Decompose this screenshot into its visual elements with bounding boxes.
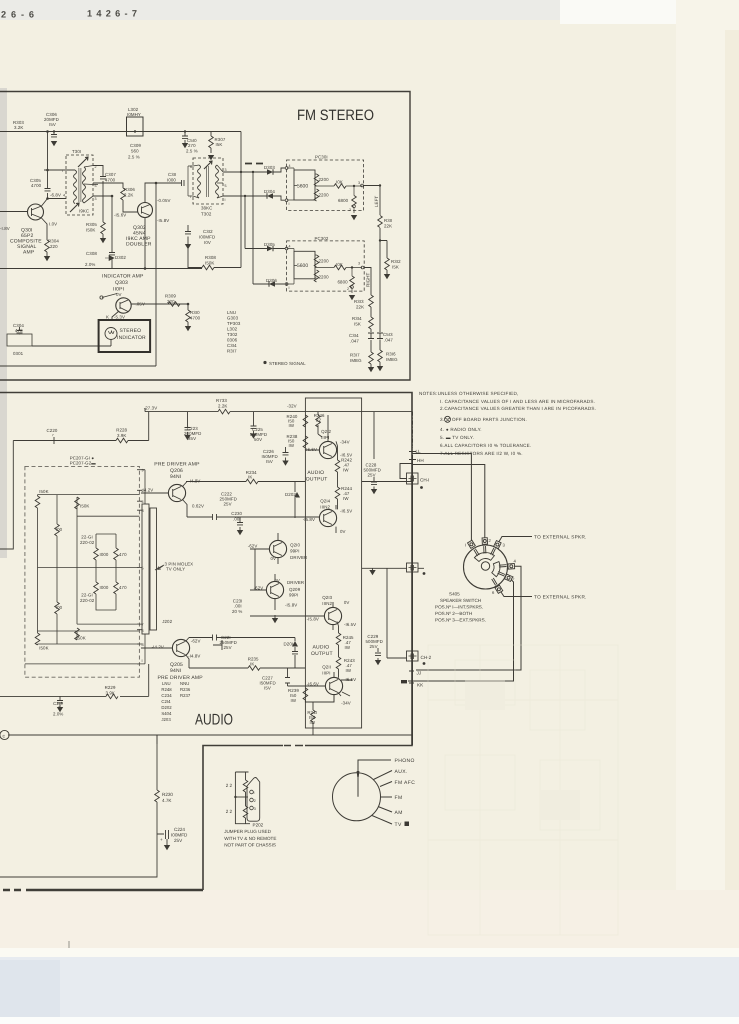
svg-text:7: 7 <box>142 623 144 627</box>
svg-text:D306: D306 <box>266 278 277 283</box>
svg-text:R3I3: R3I3 <box>354 299 364 304</box>
svg-text:I9KC: I9KC <box>79 209 89 214</box>
svg-text:J202: J202 <box>162 619 172 624</box>
svg-text:D304: D304 <box>264 189 275 194</box>
svg-text:2.2K: 2.2K <box>218 404 227 409</box>
svg-text:5: 5 <box>225 184 227 188</box>
svg-text:C308: C308 <box>86 251 97 256</box>
svg-text:4: 4 <box>63 194 65 198</box>
svg-text:2 2: 2 2 <box>226 783 233 788</box>
svg-text:-5.3V: -5.3V <box>114 315 125 320</box>
svg-text:-I6.5V: -I6.5V <box>340 509 352 514</box>
svg-text:I00MFD: I00MFD <box>199 235 215 240</box>
svg-text:C309: C309 <box>130 143 141 148</box>
svg-text:-I4.2V: -I4.2V <box>152 645 164 650</box>
svg-text:D303: D303 <box>264 165 275 170</box>
svg-text:-I6.6V: -I6.6V <box>305 447 317 452</box>
svg-text:AMP: AMP <box>23 250 35 256</box>
svg-text:6: 6 <box>142 629 144 633</box>
svg-text:5: 5 <box>142 567 144 571</box>
svg-text:6.ALL CAPACITORS I0 % TOLERAN: 6.ALL CAPACITORS I0 % TOLERANCE. <box>440 443 531 448</box>
svg-text:IK: IK <box>248 475 252 480</box>
svg-text:22K: 22K <box>356 305 364 310</box>
svg-text:LL: LL <box>416 449 422 454</box>
svg-text:22K: 22K <box>384 224 392 229</box>
svg-text:AUX.: AUX. <box>395 769 408 775</box>
svg-text:POS.Nº 2—BOTH: POS.Nº 2—BOTH <box>435 611 472 616</box>
svg-text:JUMPER PLUG USED: JUMPER PLUG USED <box>224 829 271 834</box>
svg-text:IW: IW <box>289 443 295 448</box>
svg-text:-.05V: -.05V <box>134 302 145 307</box>
svg-text:3: 3 <box>225 168 227 172</box>
svg-text:2.2K: 2.2K <box>124 193 133 198</box>
svg-text:II0PI: II0PI <box>113 287 124 293</box>
svg-text:6800: 6800 <box>338 198 349 203</box>
svg-text:220-02: 220-02 <box>80 540 95 545</box>
svg-text:C3I2: C3I2 <box>203 229 213 234</box>
svg-text:IMEG: IMEG <box>386 357 398 362</box>
svg-text:220: 220 <box>167 299 175 304</box>
svg-text:C3I4: C3I4 <box>227 343 237 348</box>
svg-text:I: I <box>190 195 191 199</box>
svg-text:C3II: C3II <box>168 172 176 177</box>
svg-text:R3II: R3II <box>384 218 392 223</box>
svg-text:-I4.8V: -I4.8V <box>188 479 200 484</box>
svg-text:R237: R237 <box>180 693 191 698</box>
svg-text:I: I <box>254 791 255 795</box>
svg-text:-I6.5V: -I6.5V <box>344 677 356 682</box>
svg-text:2.5 %: 2.5 % <box>128 155 140 160</box>
svg-text:T30I: T30I <box>72 149 81 154</box>
svg-text:DOUBLER: DOUBLER <box>126 242 152 248</box>
svg-text:.047: .047 <box>384 338 393 343</box>
svg-text:R248: R248 <box>161 687 172 692</box>
svg-text:Q2I4: Q2I4 <box>320 499 330 504</box>
svg-text:470: 470 <box>119 552 127 557</box>
svg-text:I5V: I5V <box>266 459 273 464</box>
svg-text:3: 3 <box>358 262 360 266</box>
svg-text:3: 3 <box>142 509 144 513</box>
svg-text:3: 3 <box>254 807 256 811</box>
svg-text:I: I <box>289 286 290 290</box>
svg-text:OUTPUT: OUTPUT <box>311 651 333 657</box>
svg-text:Q2I2: Q2I2 <box>321 429 331 434</box>
svg-text:HH: HH <box>417 458 424 463</box>
svg-text:FM STEREO: FM STEREO <box>297 107 374 124</box>
svg-text:I: I <box>289 202 290 206</box>
svg-text:0V: 0V <box>116 292 122 297</box>
svg-text:4. ● RADIO ONLY.: 4. ● RADIO ONLY. <box>440 427 482 432</box>
svg-text:C3I4: C3I4 <box>349 333 359 338</box>
svg-text:NOT PART OF CHASSIS: NOT PART OF CHASSIS <box>224 843 276 848</box>
svg-text:2.5 %: 2.5 % <box>186 149 198 154</box>
svg-text:20 %: 20 % <box>232 609 242 614</box>
svg-text:TO EXTERNAL SPKR.: TO EXTERNAL SPKR. <box>534 595 587 600</box>
svg-text:I50K: I50K <box>39 489 48 494</box>
svg-text:R3I4: R3I4 <box>352 316 362 321</box>
svg-text:270: 270 <box>188 143 196 148</box>
svg-text:C220: C220 <box>47 428 58 433</box>
svg-text:I0V: I0V <box>204 240 211 245</box>
svg-text:POS.Nº I—INT.SPKRS.: POS.Nº I—INT.SPKRS. <box>435 605 483 610</box>
svg-text:-32V: -32V <box>287 404 297 409</box>
svg-text:R229: R229 <box>105 685 116 690</box>
svg-text:C230: C230 <box>231 511 242 516</box>
svg-text:-I5.8V: -I5.8V <box>285 603 297 608</box>
svg-text:4: 4 <box>289 164 291 168</box>
svg-text:-62V: -62V <box>254 586 264 591</box>
svg-text:DRIVER: DRIVER <box>287 580 304 585</box>
svg-text:I5K: I5K <box>354 322 361 327</box>
svg-text:560: 560 <box>131 149 139 154</box>
svg-text:⌜: ⌜ <box>58 706 60 711</box>
svg-text:KK: KK <box>417 683 424 688</box>
svg-text:-34V: -34V <box>341 701 351 706</box>
svg-text:-62V: -62V <box>191 639 201 644</box>
svg-text:94NI: 94NI <box>170 474 181 480</box>
svg-text:C2I4: C2I4 <box>161 699 171 704</box>
svg-text:I50K: I50K <box>39 646 48 651</box>
svg-text:-62V: -62V <box>248 544 258 549</box>
svg-text:IK: IK <box>250 662 254 667</box>
svg-text:-I5.6V: -I5.6V <box>114 213 126 218</box>
svg-text:I50K: I50K <box>86 228 95 233</box>
svg-text:-I5.8V: -I5.8V <box>307 617 319 622</box>
svg-text:4: 4 <box>142 500 144 504</box>
svg-text:5: 5 <box>95 184 97 188</box>
svg-text:470: 470 <box>119 585 127 590</box>
svg-text:D202: D202 <box>161 705 172 710</box>
svg-text:I. CAPACITANCE VALUES OF I AND: I. CAPACITANCE VALUES OF I AND LESS ARE … <box>440 399 595 404</box>
svg-text:CH-2: CH-2 <box>421 655 432 660</box>
svg-text:25V: 25V <box>370 644 378 649</box>
svg-text:I: I <box>465 543 466 548</box>
svg-text:OUTPUT: OUTPUT <box>306 476 328 482</box>
svg-text:Q303: Q303 <box>115 280 128 286</box>
svg-text:K: K <box>106 315 109 320</box>
svg-text:AUDIO: AUDIO <box>307 470 324 476</box>
svg-text:IW: IW <box>346 668 352 673</box>
svg-text:22: 22 <box>316 418 322 423</box>
svg-text:2: 2 <box>142 489 144 493</box>
svg-text:PRE DRIVER AMP: PRE DRIVER AMP <box>154 462 200 468</box>
svg-text:S404: S404 <box>161 711 172 716</box>
svg-text:35V: 35V <box>188 436 196 441</box>
svg-text:22-GI: 22-GI <box>81 593 92 598</box>
svg-text:4700: 4700 <box>190 316 201 321</box>
svg-text:NNU: NNU <box>180 681 189 686</box>
svg-text:25V: 25V <box>174 838 183 843</box>
svg-text:-I6.6V: -I6.6V <box>307 682 319 687</box>
svg-text:0V: 0V <box>344 600 350 605</box>
svg-text:R306: R306 <box>124 187 135 192</box>
svg-text:C234: C234 <box>161 693 172 698</box>
svg-text:IIIN2: IIIN2 <box>322 601 332 606</box>
svg-text:2: 2 <box>347 287 349 291</box>
svg-text:94NI: 94NI <box>170 668 181 674</box>
svg-text:D20I: D20I <box>284 642 294 647</box>
svg-text:2.CAPACITANCE VALUES GREATER T: 2.CAPACITANCE VALUES GREATER THAN I ARE … <box>440 406 596 411</box>
svg-text:-I5.8V: -I5.8V <box>157 218 169 223</box>
svg-text:2.0%: 2.0% <box>85 262 95 267</box>
svg-text:I: I <box>62 169 63 173</box>
svg-text:I50K: I50K <box>205 261 214 266</box>
svg-text:OFF BOARD PARTS JUNCTION.: OFF BOARD PARTS JUNCTION. <box>452 417 527 422</box>
svg-text:FM: FM <box>395 795 403 801</box>
svg-text:I5V: I5V <box>49 122 56 127</box>
svg-text:R733: R733 <box>216 398 227 403</box>
svg-text:5600: 5600 <box>297 263 308 269</box>
svg-text:25V: 25V <box>368 473 376 478</box>
svg-text:2200: 2200 <box>319 193 330 198</box>
svg-text:R3I0: R3I0 <box>190 310 200 315</box>
svg-text:INDICATOR: INDICATOR <box>117 335 146 341</box>
svg-text:R236: R236 <box>180 687 191 692</box>
svg-text:25V: 25V <box>224 645 232 650</box>
svg-text:99PI: 99PI <box>289 593 298 598</box>
svg-text:AUDIO: AUDIO <box>313 645 330 651</box>
svg-text:IIIN2: IIIN2 <box>320 505 330 510</box>
svg-text:2 2: 2 2 <box>226 809 233 814</box>
svg-text:3.9K: 3.9K <box>106 691 115 696</box>
svg-text:I5V: I5V <box>264 686 271 691</box>
svg-text:C5I3: C5I3 <box>383 332 393 337</box>
svg-text:.00I: .00I <box>234 604 242 609</box>
svg-text:TP303: TP303 <box>227 321 241 326</box>
svg-text:.00I: .00I <box>233 517 241 522</box>
svg-text:5600: 5600 <box>297 184 308 190</box>
svg-text:I0K: I0K <box>336 262 343 267</box>
svg-text:R228: R228 <box>116 428 127 433</box>
svg-text:-27.3V: -27.3V <box>144 406 158 411</box>
svg-text:AM: AM <box>395 810 403 816</box>
svg-text:PC207-G2▬: PC207-G2▬ <box>70 461 97 466</box>
svg-text:IIIPI: IIIPI <box>322 671 330 676</box>
svg-text:I000: I000 <box>167 178 176 183</box>
svg-text:I50K: I50K <box>80 504 89 509</box>
svg-text:I0MHY: I0MHY <box>127 112 141 117</box>
svg-text:R3I6: R3I6 <box>386 352 396 357</box>
svg-text:6800: 6800 <box>338 280 349 285</box>
svg-text:I00: I00 <box>56 605 63 610</box>
svg-text:-0.05V: -0.05V <box>157 198 171 203</box>
svg-text:-I.8V: -I.8V <box>0 226 10 231</box>
svg-text:0V: 0V <box>271 556 277 561</box>
svg-text:3.: 3. <box>440 417 444 422</box>
svg-text:0301: 0301 <box>13 351 24 356</box>
svg-text:220-02: 220-02 <box>80 598 95 603</box>
svg-text:Q206: Q206 <box>170 468 183 474</box>
svg-text:0.62V: 0.62V <box>192 504 204 509</box>
svg-text:220: 220 <box>50 244 58 249</box>
svg-text:-I4.8V: -I4.8V <box>188 654 200 659</box>
svg-text:TO EXTERNAL SPKR.: TO EXTERNAL SPKR. <box>534 535 587 540</box>
svg-text:-34V: -34V <box>340 440 350 445</box>
svg-text:0V: 0V <box>340 529 346 534</box>
svg-text:IW: IW <box>345 645 351 650</box>
svg-text:I: I <box>142 659 143 663</box>
svg-text:4.7K: 4.7K <box>162 798 172 803</box>
svg-text:DRIVER: DRIVER <box>290 555 307 560</box>
svg-text:2: 2 <box>349 208 351 212</box>
svg-text:3: 3 <box>358 181 360 185</box>
svg-text:AUDIO: AUDIO <box>195 712 233 729</box>
svg-text:22-GI: 22-GI <box>81 535 92 540</box>
svg-text:IMEG: IMEG <box>350 358 362 363</box>
svg-text:Q2I3: Q2I3 <box>322 595 332 600</box>
svg-text:PHONO: PHONO <box>395 758 415 764</box>
svg-text:IW: IW <box>291 698 297 703</box>
svg-text:2200: 2200 <box>319 275 330 280</box>
svg-text:POS.Nº 3—EXT.SPKRS.: POS.Nº 3—EXT.SPKRS. <box>435 618 486 623</box>
svg-text:2200: 2200 <box>319 177 330 182</box>
svg-text:2: 2 <box>254 799 256 803</box>
svg-text:38KC: 38KC <box>201 206 212 211</box>
svg-text:I00: I00 <box>56 527 63 532</box>
svg-text:2: 2 <box>95 165 97 169</box>
svg-text:IIIPI: IIIPI <box>321 435 329 440</box>
svg-text:IW: IW <box>289 423 295 428</box>
svg-text:INDICATOR AMP: INDICATOR AMP <box>102 274 144 280</box>
svg-text:I000: I000 <box>100 552 109 557</box>
svg-text:SPEAKER SWITCH: SPEAKER SWITCH <box>440 598 481 603</box>
svg-text:I0K: I0K <box>336 180 343 185</box>
svg-text:P202: P202 <box>253 823 264 828</box>
svg-text:TV ONLY: TV ONLY <box>166 567 185 572</box>
svg-text:NOTES:UNLESS OTHERWISE SPECIFI: NOTES:UNLESS OTHERWISE SPECIFIED, <box>419 391 519 396</box>
svg-text:JJ: JJ <box>417 671 422 676</box>
svg-text:R230: R230 <box>162 792 173 797</box>
svg-text:C307: C307 <box>105 172 116 177</box>
svg-text:PC30I: PC30I <box>315 155 328 160</box>
svg-text:I5K: I5K <box>216 142 223 147</box>
svg-text:4700: 4700 <box>105 178 116 183</box>
svg-text:-I5.8V: -I5.8V <box>303 517 315 522</box>
svg-text:R308: R308 <box>205 255 216 260</box>
svg-text:0V: 0V <box>274 578 280 583</box>
svg-text:S405: S405 <box>449 592 460 597</box>
svg-text:Q2I0: Q2I0 <box>290 543 300 548</box>
svg-text:I5K: I5K <box>392 265 399 270</box>
svg-text:RIGHT: RIGHT <box>366 273 371 287</box>
svg-text:STEREO: STEREO <box>120 328 142 334</box>
svg-text:D305: D305 <box>264 242 275 247</box>
svg-text:IW: IW <box>343 468 349 473</box>
svg-text:CH-I: CH-I <box>420 478 429 483</box>
svg-text:R3I2: R3I2 <box>391 259 401 264</box>
svg-text:D302: D302 <box>115 255 126 260</box>
svg-text:R304: R304 <box>48 239 59 244</box>
svg-text:LNU: LNU <box>227 310 236 315</box>
svg-text:IW: IW <box>343 496 349 501</box>
svg-text:6: 6 <box>190 165 192 169</box>
svg-text:9: 9 <box>142 469 144 473</box>
svg-text:Q2II: Q2II <box>322 665 331 670</box>
svg-text:0306: 0306 <box>227 338 238 343</box>
svg-text:FM AFC: FM AFC <box>395 780 416 786</box>
svg-text:Q209: Q209 <box>289 587 301 592</box>
svg-text:D202: D202 <box>285 492 296 497</box>
svg-text:LEFT: LEFT <box>374 196 379 207</box>
svg-text:PC302: PC302 <box>315 236 329 241</box>
svg-text:WITH TV & NO REMOTE: WITH TV & NO REMOTE <box>224 836 276 841</box>
svg-text:.047: .047 <box>350 339 359 344</box>
svg-text:R3I7: R3I7 <box>350 353 360 358</box>
svg-text:2.0%: 2.0% <box>53 712 63 717</box>
svg-text:L302: L302 <box>227 327 238 332</box>
svg-text:I.0V: I.0V <box>49 222 57 227</box>
svg-text:J203: J203 <box>161 717 171 722</box>
svg-text:3.9K: 3.9K <box>117 433 126 438</box>
svg-text:5. ▬ TV ONLY.: 5. ▬ TV ONLY. <box>440 435 474 440</box>
svg-text:LNU: LNU <box>162 681 171 686</box>
svg-text:4: 4 <box>289 245 291 249</box>
svg-text:G303: G303 <box>227 316 239 321</box>
svg-text:99PI: 99PI <box>290 549 299 554</box>
svg-text:2200: 2200 <box>319 259 330 264</box>
svg-text:T302: T302 <box>201 212 212 217</box>
svg-text:C224: C224 <box>174 827 185 832</box>
svg-text:470: 470 <box>15 328 23 333</box>
svg-text:I50K: I50K <box>76 636 85 641</box>
svg-text:I000: I000 <box>100 585 109 590</box>
svg-text:3.2K: 3.2K <box>14 125 23 130</box>
svg-text:R305: R305 <box>86 222 97 227</box>
svg-text:IW: IW <box>310 720 316 725</box>
svg-text:⌜: ⌜ <box>52 434 54 439</box>
svg-text:25V: 25V <box>224 502 232 507</box>
svg-text:R309: R309 <box>165 294 176 299</box>
svg-text:STEREO SIGNAL: STEREO SIGNAL <box>269 361 306 366</box>
svg-text:3: 3 <box>95 197 97 201</box>
svg-text:I: I <box>225 198 226 202</box>
svg-text:4700: 4700 <box>31 183 42 188</box>
svg-text:50V: 50V <box>254 437 262 442</box>
svg-text:8: 8 <box>142 643 144 647</box>
svg-text:R3I7: R3I7 <box>227 349 237 354</box>
svg-text:T302: T302 <box>227 332 238 337</box>
svg-text:-I6.5V: -I6.5V <box>344 622 356 627</box>
svg-text:-6.8V: -6.8V <box>50 193 61 198</box>
svg-text:+: + <box>160 837 163 842</box>
svg-text:TV: TV <box>395 822 402 828</box>
svg-text:I00MFD: I00MFD <box>171 833 188 838</box>
